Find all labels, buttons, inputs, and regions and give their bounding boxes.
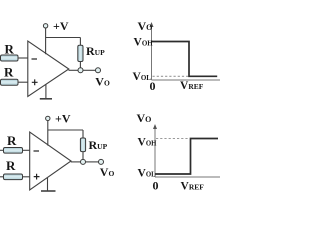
node output junction (bottom): [81, 159, 86, 164]
y-axis top graph: [151, 26, 153, 81]
svg-text:RUP: RUP: [86, 44, 105, 58]
wire RUP2 bottom lead to node: [82, 152, 84, 160]
wire left stub R3: [0, 149, 4, 151]
resistor R3 (bottom comparator, inverting input): [4, 148, 23, 154]
y-axis arrow bottom graph: [153, 124, 157, 129]
svg-text:R: R: [4, 64, 14, 79]
terminal +V (bottom): [46, 116, 50, 120]
svg-text:VO: VO: [100, 165, 115, 179]
wire RUP bottom lead to node: [79, 62, 81, 69]
svg-text:VO: VO: [138, 19, 153, 33]
wire ground stem U1: [45, 84, 47, 98]
node output junction (top): [78, 68, 83, 73]
svg-text:R: R: [5, 42, 15, 57]
wire +V vertical into U1 top edge: [45, 28, 47, 54]
resistor RUP (top pull-up): [78, 45, 83, 61]
wire left stub R4: [0, 176, 4, 178]
dashed VOH level line (bottom graph): [156, 138, 190, 140]
svg-text:VO: VO: [95, 75, 110, 89]
op-amp U2 (bottom comparator): [30, 132, 71, 190]
svg-text:VOH: VOH: [134, 37, 154, 49]
curve VOH segment (top graph): [152, 42, 218, 77]
wire RUP top lead (bottom): [82, 130, 84, 138]
svg-text:0: 0: [153, 178, 159, 192]
wire +V horizontal to RUP (bottom): [48, 129, 83, 131]
resistor RUP2 (bottom pull-up): [80, 138, 85, 152]
x-axis bottom graph: [155, 176, 220, 178]
wire node to Vo terminal (top): [83, 69, 96, 71]
wire +V horizontal to RUP (top): [46, 37, 81, 39]
resistor R4 (bottom comparator, non-inverting input): [4, 174, 23, 180]
wire RUP top lead: [79, 38, 81, 46]
wire U2 output to node: [71, 161, 81, 163]
terminal +V (top): [43, 24, 47, 28]
y-axis arrow top graph: [150, 22, 154, 27]
plus sign U1 non-inverting input: [32, 79, 38, 85]
svg-text:VO: VO: [137, 111, 152, 125]
op-amp U1 (top comparator): [28, 41, 69, 97]
x-axis top graph: [152, 79, 221, 81]
minus sign U2 inverting input: [34, 150, 40, 152]
svg-text:+V: +V: [55, 111, 71, 125]
svg-text:RUP: RUP: [89, 138, 108, 152]
minus sign U1 inverting input: [32, 58, 38, 60]
svg-text:VOH: VOH: [138, 137, 158, 149]
wire +V vertical into U2 top edge: [47, 121, 49, 146]
wire U1 output to node: [69, 69, 79, 71]
svg-text:VREF: VREF: [181, 180, 205, 192]
ground (bottom comparator): [41, 190, 56, 192]
dashed VOL level line (top graph): [153, 75, 189, 77]
resistor R2 (top comparator, non-inverting input): [1, 79, 19, 85]
wire R2 to U1 non-inverting input: [18, 81, 28, 83]
y-axis bottom graph: [154, 128, 156, 178]
plus sign U2 non-inverting input: [34, 174, 40, 180]
svg-text:R: R: [6, 158, 16, 173]
terminal Vo (top): [96, 68, 101, 73]
terminal Vo (bottom): [99, 159, 104, 164]
wire R3 to U2 inverting input: [23, 149, 30, 151]
wire ground stem U2: [47, 178, 49, 191]
curve VOL segment (bottom graph): [155, 139, 218, 175]
svg-text:VOL: VOL: [133, 71, 152, 83]
svg-text:R: R: [7, 133, 17, 148]
wire R1 to U1 inverting input: [18, 57, 28, 59]
svg-text:VOL: VOL: [138, 167, 157, 179]
wire node to Vo terminal (bottom): [86, 161, 99, 163]
ground (top comparator): [40, 98, 52, 100]
wire R4 to U2 non-inverting input: [23, 176, 30, 178]
svg-text:+V: +V: [53, 19, 69, 33]
svg-text:VREF: VREF: [180, 80, 204, 92]
resistor R1 (top comparator, inverting input): [1, 55, 19, 61]
